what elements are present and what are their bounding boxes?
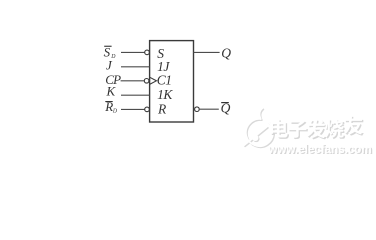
clock wedge C1 (dynamic input) (150, 77, 157, 84)
svg-text:D: D (112, 109, 118, 115)
flip-flop body U1 (150, 41, 194, 122)
bubble Qbar (inverted output) (195, 107, 200, 112)
output label Qbar (221, 101, 231, 116)
svg-text:K: K (106, 84, 117, 99)
watermark logo (244, 108, 274, 147)
wire K input (121, 94, 150, 96)
input label SD (active-low set) (104, 44, 117, 60)
bubble RD (active low) (145, 107, 150, 112)
wire Qbar output (199, 108, 219, 110)
input label RD (active-low reset) (104, 99, 118, 115)
wire J input (121, 66, 150, 68)
wire RD input (121, 108, 145, 110)
bubble SD (active low) (145, 50, 150, 55)
wire SD input (121, 51, 145, 53)
watermark text dianzifashaoyou (272, 117, 364, 140)
svg-text:www.elecfans.com: www.elecfans.com (267, 143, 371, 156)
bubble CP (active low clock) (144, 79, 149, 84)
svg-text:R: R (157, 101, 167, 116)
svg-text:Q: Q (221, 46, 231, 61)
svg-text:1K: 1K (157, 87, 173, 102)
wire CP input (121, 80, 145, 82)
svg-text:C1: C1 (157, 73, 172, 88)
wire Q output (194, 51, 220, 53)
